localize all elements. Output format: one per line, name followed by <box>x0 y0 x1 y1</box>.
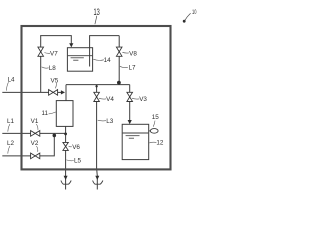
leader 11 <box>49 112 57 114</box>
leader V1 <box>36 124 38 130</box>
wire L5 drain from box 11 bottom through border <box>65 126 67 189</box>
svg-text:12: 12 <box>156 139 164 146</box>
box 11 <box>56 101 73 127</box>
arrow drain L3 <box>95 176 99 180</box>
svg-text:10: 10 <box>192 9 197 16</box>
leader L8 <box>42 67 49 68</box>
leader L7 <box>120 66 128 67</box>
svg-text:V1: V1 <box>31 118 39 125</box>
arrow into tank 14 <box>69 43 73 47</box>
label 10 leader dot <box>183 20 186 23</box>
wire L2 inlet <box>2 155 30 157</box>
wire L7 from top rail down through V8 to mid rail <box>118 36 120 85</box>
tank 14 liquid level <box>68 55 92 57</box>
enclosure border 13 <box>22 26 171 169</box>
svg-text:13: 13 <box>94 7 100 17</box>
svg-text:L8: L8 <box>49 65 57 72</box>
leader V6 <box>69 145 72 148</box>
funnel drain L3 <box>93 181 103 185</box>
tank 12 <box>122 124 149 159</box>
valve V1 <box>31 131 40 137</box>
tank 14 <box>67 48 92 71</box>
svg-text:V8: V8 <box>129 50 137 57</box>
wire top rail to tank 14 inlet <box>40 36 71 44</box>
junction dot L1/V6 line <box>64 133 67 136</box>
leader L3 <box>98 119 106 122</box>
tank 12 liquid level tick 3 <box>129 137 134 139</box>
wire L1 after valve V1 <box>40 132 66 134</box>
wire vertical into box 11 top <box>65 85 67 101</box>
valve V4 <box>94 92 100 101</box>
arrow drain L5 <box>64 176 68 180</box>
valve V8 <box>116 47 122 56</box>
svg-text:15: 15 <box>152 114 160 121</box>
arrow from V5 into vertical pipe <box>61 90 65 94</box>
svg-text:14: 14 <box>104 57 112 64</box>
svg-text:V4: V4 <box>106 96 114 103</box>
leader L2 <box>8 146 10 154</box>
svg-text:L1: L1 <box>7 118 15 125</box>
arrow into tank 12 <box>128 120 132 124</box>
leader V5 <box>55 83 56 88</box>
wire L4 from valve V5 to arrow <box>57 91 61 93</box>
leader V7 <box>44 52 50 55</box>
junction dot L2 riser on L1 <box>53 134 57 138</box>
svg-text:L7: L7 <box>128 65 136 72</box>
junction dot V8/mid rail <box>117 81 121 85</box>
tank 14 liquid level tick 3 <box>73 59 78 61</box>
level sensor 15 ellipse <box>150 129 158 134</box>
leader 15 <box>153 121 155 127</box>
funnel drain L5 <box>61 181 71 185</box>
wire L2 after valve V2 riser to L1 <box>40 134 54 156</box>
svg-text:V6: V6 <box>72 144 80 151</box>
leader 12 <box>149 141 156 144</box>
svg-text:V5: V5 <box>51 78 59 85</box>
svg-text:V7: V7 <box>50 51 58 58</box>
leader V3 <box>132 97 139 100</box>
wire mid rail <box>66 84 130 86</box>
junction dot V4 tee <box>95 85 97 87</box>
leader L4 <box>6 82 8 90</box>
leader L5 <box>66 159 73 162</box>
label 13 leader <box>95 16 97 24</box>
valve V3 <box>127 92 133 101</box>
wire V3 branch drop <box>129 85 131 93</box>
leader V2 <box>36 146 37 152</box>
wire dip tube into tank 14 <box>90 36 120 67</box>
leader 14 <box>93 59 104 60</box>
level sensor 15 stub <box>149 130 151 132</box>
wire L3 drain line down through border <box>96 102 99 190</box>
svg-text:L2: L2 <box>7 140 15 147</box>
wire from V3 to tank 12 <box>129 102 131 121</box>
svg-text:L5: L5 <box>74 158 82 165</box>
valve V7 <box>38 47 44 56</box>
label 10 leader <box>185 13 191 20</box>
svg-text:V3: V3 <box>139 96 147 103</box>
leader L1 <box>8 124 10 132</box>
svg-text:L4: L4 <box>7 76 15 83</box>
wire L4 inlet horizontal <box>2 91 48 93</box>
wire riser L8 from L4 junction up <box>40 36 42 93</box>
tank 12 liquid level tick 2 <box>126 135 140 137</box>
tank 14 liquid level tick 2 <box>71 57 84 59</box>
valve V2 <box>31 153 40 159</box>
svg-text:L3: L3 <box>106 118 114 125</box>
valve V6 <box>63 142 68 150</box>
svg-text:11: 11 <box>42 110 49 117</box>
leader V8 <box>122 51 128 54</box>
valve V5 <box>49 90 58 96</box>
wire L1 inlet <box>2 132 30 134</box>
tank 12 liquid level <box>123 132 149 134</box>
wire V4 branch drop <box>96 85 98 93</box>
leader V4 <box>99 97 106 100</box>
svg-text:V2: V2 <box>31 140 39 147</box>
